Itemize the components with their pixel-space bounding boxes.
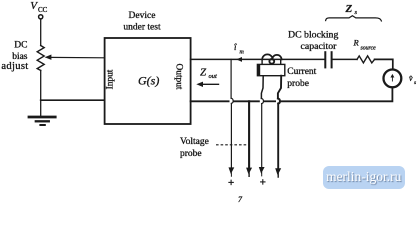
arrowhead lead 4	[275, 168, 281, 178]
svg-text:DC blocking: DC blocking	[288, 30, 338, 41]
label DC bias adjust	[1, 41, 28, 72]
wire potentiometer bottom to ground	[40, 70, 42, 115]
source v_s (circle)	[384, 70, 402, 88]
watermark merlin-igor.ru	[323, 166, 405, 189]
current probe output lead (-) hop	[278, 98, 280, 168]
current probe left lead	[261, 76, 263, 99]
current probe right lead	[278, 76, 281, 99]
svg-text:probe: probe	[287, 79, 309, 89]
svg-text:adjust: adjust	[1, 61, 28, 72]
label Device under test	[123, 11, 161, 33]
svg-text:Device: Device	[129, 11, 156, 21]
label Z_out	[200, 66, 217, 80]
svg-text:out: out	[209, 73, 218, 80]
svg-text:probe: probe	[180, 149, 202, 159]
pointer dashed line voltage probe	[216, 144, 247, 146]
wire source bottom	[280, 88, 392, 102]
svg-text:m: m	[240, 50, 245, 56]
polarity + lead 1	[229, 180, 233, 184]
svg-text:CC: CC	[38, 6, 48, 14]
label Current probe	[287, 67, 316, 89]
wire output top	[191, 58, 325, 60]
label DC blocking capacitor	[288, 30, 338, 53]
svg-text:s: s	[414, 80, 416, 86]
arrowhead lead 3	[259, 167, 265, 176]
label Rsource	[353, 38, 377, 52]
svg-text:Z: Z	[200, 66, 207, 78]
voltage probe lead 1 (+) from output top	[231, 59, 233, 168]
terminal Vcc	[39, 15, 43, 19]
svg-text:Current: Current	[287, 67, 316, 77]
arrowhead lead 1	[229, 167, 235, 176]
polarity + lead 3	[261, 180, 265, 184]
wire bottom input	[41, 99, 105, 101]
label Z_s	[345, 3, 358, 16]
wire Vcc to potentiometer	[40, 19, 42, 45]
arrow Z_out (pointing left)	[196, 82, 218, 87]
current probe output lead (+) hop	[261, 98, 263, 167]
svg-text:Z: Z	[345, 3, 353, 15]
node Vcc label	[30, 0, 47, 14]
current probe head	[257, 64, 284, 75]
resistor Rsource	[357, 56, 375, 63]
wire output bottom (return)	[191, 100, 276, 102]
device under test box G(s)	[105, 38, 191, 124]
svg-text:under test: under test	[123, 23, 161, 33]
svg-text:G(s): G(s)	[138, 74, 159, 88]
capacitor C (DC blocking)	[325, 52, 331, 67]
potentiometer wiper arrow	[45, 55, 105, 60]
wire Rsource to source	[375, 59, 393, 69]
svg-text:DC: DC	[14, 41, 27, 51]
svg-text:capacitor: capacitor	[301, 41, 338, 52]
ground	[29, 117, 55, 125]
brace Z_s	[326, 16, 382, 21]
potentiometer R (DC bias adjust)	[37, 46, 44, 71]
arrowhead lead 2	[246, 168, 252, 177]
svg-text:Input: Input	[106, 69, 116, 89]
voltage probe lead 2 (-) from return wire	[248, 101, 250, 168]
label Voltage probe	[180, 137, 209, 159]
svg-text:Output: Output	[174, 63, 184, 89]
svg-text:Voltage: Voltage	[180, 137, 209, 147]
wire capacitor to Rsource	[333, 58, 357, 60]
label i_m	[234, 42, 245, 56]
current i_m arrow	[236, 57, 242, 62]
svg-text:source: source	[361, 45, 377, 51]
svg-text:v̂: v̂	[409, 74, 413, 83]
current probe clamp loops	[262, 54, 282, 64]
label v_s	[409, 74, 416, 86]
svg-text:R: R	[353, 38, 360, 48]
